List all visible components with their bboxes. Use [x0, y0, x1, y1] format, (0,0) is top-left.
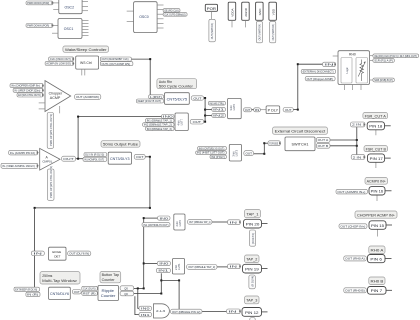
pill acmp0l in-: [1, 163, 38, 168]
label Auto Rtn 500 Cycle Counter: [157, 79, 197, 89]
pill WS out0: [100, 57, 131, 61]
pill OSC0 out OE: [163, 9, 180, 13]
wire LUT7 out stub: [204, 121, 206, 123]
pill 2LUT1 in0: [157, 261, 170, 265]
junction CNT3 net lower right corner: [149, 207, 151, 209]
svg-text:Logic: Logic: [345, 67, 349, 74]
TAP1-CHAIN: [142, 210, 262, 247]
wire ACMP0L net vertical up: [77, 117, 79, 159]
wire PIN 15 bottom stub: [377, 229, 379, 236]
pill 3LUT0 in2: [212, 114, 226, 118]
junction Q0 corner: [160, 293, 162, 295]
junction debounce branch: [160, 279, 162, 281]
svg-text:CNT5/DLY5: CNT5/DLY5: [167, 98, 188, 102]
svg-text:POR: POR: [207, 7, 217, 11]
wire Q5 net vertical up to LUT0/LUT1: [143, 218, 145, 288]
pin stub below AGND: [244, 20, 246, 27]
pill 3LUT0 out: [244, 108, 252, 112]
svg-text:1 (RST): 1 (RST): [150, 95, 162, 99]
wire PIN 18 out right: [385, 125, 391, 127]
pill LUT7 in1: [146, 119, 175, 123]
svg-text:P DLY: P DLY: [268, 108, 279, 112]
svg-text:OUT (RH0 B): OUT (RH0 B): [345, 289, 365, 293]
wire CNT3 net vertical down left side to EDGE DET and CNT6: [34, 208, 36, 289]
pill LUT7 out: [190, 119, 203, 124]
pill OSC1 power-down input: [26, 24, 53, 28]
svg-text:(R DLY4): (R DLY4): [251, 233, 255, 244]
counter CNT6/DLY6: [49, 287, 71, 299]
lut 2-bit LUT1: [172, 259, 184, 275]
svg-text:IN2 (DBNdLE TAP_2): IN2 (DBNdLE TAP_2): [144, 123, 172, 127]
wire 2-bit LUT0 out to PIN20 in: [212, 221, 228, 223]
label 50ms Output Pulse: [101, 141, 140, 148]
pill GND matrix (rotated): [256, 21, 262, 42]
wire PIN 20 out right: [262, 223, 268, 225]
svg-text:CLK (DLY6): CLK (DLY6): [83, 287, 96, 291]
op-amp ACMP0L: [40, 148, 60, 170]
pill 2LUT1 in1: [156, 268, 170, 272]
RIPPLE-CLUSTER: [98, 271, 134, 300]
wire lut0 out to pdly in: [252, 109, 254, 111]
wire CNT3 out stub: [145, 156, 150, 158]
TAP3-CHAIN: [139, 296, 262, 320]
WIRES-LAYER: [34, 58, 392, 315]
svg-text:LUT3: LUT3: [234, 149, 238, 156]
svg-text:2-L3: 2-L3: [156, 309, 166, 313]
svg-text:OUT0 (MASTERBIT CLK): OUT0 (MASTERBIT CLK): [102, 57, 129, 61]
pill SWITCH1 out A: [316, 138, 330, 143]
wire PIN 17 bottom stub: [375, 162, 377, 168]
pill PIN12 dly (rotated, clipped): [250, 318, 255, 320]
junction debounce corner: [178, 279, 180, 281]
delay P DLY: [266, 106, 280, 114]
svg-text:Ripple: Ripple: [102, 289, 115, 293]
pill 2LUT0 in0: [158, 216, 171, 220]
svg-text:RH0 A: RH0 A: [371, 249, 385, 253]
svg-text:IN0: IN0: [141, 307, 150, 311]
pill 3LUT0 in1: [212, 108, 226, 112]
svg-text:OUT: OUT: [246, 152, 253, 156]
svg-text:S1B (R1B) B (P): S1B (R1B) B (P): [374, 78, 393, 82]
pin stub OSC2 left: [53, 9, 59, 11]
pill PIN12 in: [227, 309, 241, 314]
svg-text:CNT6/DLY6: CNT6/DLY6: [50, 292, 69, 296]
ACMP0L-CLUSTER: [1, 148, 76, 200]
pill PIN7 matrix: [344, 288, 367, 293]
wire Q5 branch down to 2-L3 IN1: [138, 288, 139, 308]
wire pdly pill to box: [260, 109, 266, 111]
wire SWITCH1 OUT A to right: [330, 139, 357, 141]
wire P DLY net horizontal into RHD IN: [298, 63, 323, 65]
svg-text:LUT0: LUT0: [232, 103, 236, 110]
pill PDLY in: [254, 108, 261, 112]
pill CNT6 in: [26, 292, 40, 296]
EDGE-DET-CLUSTER: [31, 247, 90, 260]
wire CNT5/LUT7 shared vertical: [204, 98, 206, 122]
svg-text:IN (R): IN (R): [27, 293, 38, 297]
svg-text:OSC0: OSC0: [139, 15, 149, 19]
svg-text:OUT: OUT: [193, 96, 201, 100]
svg-text:PIN 16: PIN 16: [371, 190, 384, 194]
svg-text:FSR_CUT A: FSR_CUT A: [365, 114, 387, 118]
svg-text:OUT A: OUT A: [318, 138, 329, 142]
label ACMP0 IN+: [365, 178, 388, 185]
lut 4-bit LUT7: [175, 113, 188, 131]
LUT3-CLUSTER: [196, 144, 254, 161]
pill WS in RST: [45, 61, 74, 65]
svg-text:IN: IN: [255, 108, 260, 112]
svg-text:500 Cycle Counter: 500 Cycle Counter: [159, 85, 194, 89]
svg-text:OUT (DBNdLE TAP_1): OUT (DBNdLE TAP_1): [189, 220, 211, 224]
wire ACMP0L net horizontal to LUT7 IN0: [78, 116, 161, 118]
pill WS in CLK: [49, 57, 74, 61]
pill WS out1: [100, 62, 133, 66]
PIN17-CLUSTER: [351, 146, 387, 163]
pill ripple clk: [82, 286, 98, 290]
svg-text:IN1 (DBNdLE TAP_1): IN1 (DBNdLE TAP_1): [147, 119, 172, 123]
lut 3-bit LUT3: [229, 144, 241, 161]
svg-text:IN0: IN0: [163, 115, 174, 119]
svg-text:IN1 (CNT6/DLY6 OUT): IN1 (CNT6/DLY6 OUT): [143, 223, 168, 227]
wire debounce horizontal: [161, 279, 179, 281]
pin VDD: [269, 2, 277, 20]
svg-text:RH0 B: RH0 B: [371, 280, 385, 284]
svg-text:OUT (CHOP IN+): OUT (CHOP IN+): [340, 224, 365, 228]
pin stub below chopper: [59, 106, 61, 113]
junction LUT0 in1 branch: [204, 109, 206, 111]
pill edge det out: [68, 251, 91, 256]
pill CNT5 out: [191, 96, 203, 100]
pin stubs OSC1 right: [82, 20, 89, 22]
pill chopper out: [75, 94, 101, 99]
wire Q0 net vertical up to LUT1 IN1: [160, 273, 162, 293]
wire branch to 3-bit LUT0 IN1: [205, 109, 212, 111]
pill chopper en: [17, 93, 43, 97]
pill PIN17 in: [351, 155, 365, 160]
pin stubs OSC2 right: [82, 1, 88, 3]
svg-text:OUT: OUT: [63, 157, 74, 161]
PIN15-CLUSTER: [339, 211, 397, 229]
svg-text:IN1: IN1: [141, 313, 150, 317]
wire ripple Q5 horizontal: [134, 287, 144, 289]
pill 3LUT3 in2: [210, 155, 226, 159]
pill 3LUT0 in0: [208, 101, 225, 105]
svg-text:IN+ (ACMP0 PIN 16): IN+ (ACMP0 PIN 16): [10, 151, 35, 155]
wire PIN 17 out right: [385, 157, 391, 159]
pill RHD out OE: [373, 54, 419, 58]
pill LUT7 in2: [143, 123, 174, 127]
pill 2L3 in1: [139, 312, 152, 316]
OSC-CLUSTER: [26, 0, 187, 39]
wire CNT3 net long horizontal: [35, 207, 150, 209]
svg-text:ACMP0 IN+: ACMP0 IN+: [367, 180, 386, 184]
pill RHD in: [323, 62, 336, 66]
svg-text:Wake/Sleep Controller: Wake/Sleep Controller: [65, 47, 107, 52]
label FSR_CUT B: [364, 146, 388, 152]
svg-text:(EXTERNAL DISCONNECT): (EXTERNAL DISCONNECT): [303, 70, 334, 74]
svg-text:CLK OUT0 (DBNdLE): CLK OUT0 (DBNdLE): [164, 13, 186, 17]
junction tap net top corner: [143, 217, 145, 219]
wire PIN 12 out right: [262, 311, 268, 313]
label TAP_1: [245, 210, 261, 218]
wire P DLY net vertical up to RHD: [297, 64, 299, 109]
svg-text:Counter: Counter: [102, 278, 116, 282]
svg-text:OUT: OUT: [74, 290, 80, 294]
svg-text:LUT7: LUT7: [179, 118, 183, 125]
LUT0-PDLY-CLUSTER: [208, 98, 293, 118]
svg-text:IN0 (WS CTRL): IN0 (WS CTRL): [210, 101, 225, 105]
pill chopper power (rotated): [47, 113, 53, 149]
pill PIN19 in: [228, 264, 241, 269]
svg-text:OSC2: OSC2: [65, 5, 75, 9]
junction P DLY corner: [297, 109, 299, 111]
wire WSctrl out to CNT5 clk: horizontal: [131, 58, 150, 60]
junction Q5 corner: [143, 287, 145, 289]
pill ripple Q5: [120, 286, 134, 291]
svg-text:PWR DOWN (POR): PWR DOWN (POR): [27, 24, 49, 28]
osc OSC0: [134, 2, 158, 33]
pill POR matrix out (rotated): [209, 19, 215, 42]
pill CNT6 out: [72, 290, 81, 294]
junction CNT5 out: [204, 97, 206, 99]
pin PIN 15: [369, 221, 386, 230]
svg-text:RST (R): RST (R): [83, 291, 96, 295]
svg-text:OUT (ACMP0 IN+): OUT (ACMP0 IN+): [337, 190, 365, 194]
svg-text:2 IN: 2 IN: [352, 123, 361, 127]
svg-text:OUT1 (OUT ACMP WS): OUT1 (OUT ACMP WS): [102, 62, 131, 66]
pill CNT5 keep: [136, 99, 163, 103]
pill PDLY out: [283, 108, 293, 112]
wire PIN 16 bottom stub: [376, 195, 378, 201]
wire P DLY out to corner: [293, 109, 298, 111]
svg-text:ACMP (IN LOW SIG): ACMP (IN LOW SIG): [46, 62, 71, 66]
svg-text:Multi-Tap Window: Multi-Tap Window: [42, 279, 77, 283]
wire CNT3 net vertical down: [149, 157, 151, 208]
PIN16-CLUSTER: [336, 178, 388, 196]
pin stub below POR: [210, 11, 212, 19]
edge detector EDGE DET: [49, 247, 66, 260]
svg-text:IN: IN: [325, 63, 334, 67]
junction LUT1 in0 branch: [143, 262, 145, 264]
svg-text:PIN 6: PIN 6: [370, 257, 382, 261]
pill SWITCH1 out B: [316, 143, 330, 148]
wire RHD right pin3: [370, 79, 373, 81]
wire pill to OSC2 pin: [53, 2, 59, 4]
svg-text:OUT B: OUT B: [318, 144, 329, 148]
wire RHD right pin1: [370, 55, 373, 57]
svg-text:EDGE: EDGE: [52, 250, 61, 254]
svg-text:VDDA: VDDA: [231, 8, 235, 16]
pill 2L3 in0: [139, 306, 152, 310]
osc OSC1: [58, 19, 82, 39]
pill CNT5 clk: [149, 95, 164, 99]
pin stubs RHD bottom: [344, 85, 346, 91]
svg-text:CLK (OSC0 OUT): CLK (OSC0 OUT): [50, 57, 71, 61]
svg-text:EN (WS CTRL OUT0): EN (WS CTRL OUT0): [18, 93, 41, 97]
svg-text:CMP0L: CMP0L: [42, 160, 53, 164]
svg-text:PWR DOWN (POR): PWR DOWN (POR): [27, 1, 49, 5]
pin PIN 6: [368, 255, 386, 263]
pill edge det in: [31, 251, 44, 255]
svg-text:IN3 (DBNdLE TAP_3): IN3 (DBNdLE TAP_3): [147, 127, 172, 131]
CNT5-AUTORTN-CLUSTER: [136, 79, 203, 105]
pill 3LUT3 in0: [198, 147, 227, 151]
label RH0 B: [369, 277, 385, 285]
pin PIN 17: [368, 154, 385, 162]
por POR: [205, 4, 217, 11]
pill CNT3 in: [83, 157, 107, 161]
pill PIN20 in: [228, 220, 241, 225]
pill SWITCH1 in: [268, 141, 281, 146]
svg-text:VDD: VDD: [271, 8, 275, 15]
pin stubs below WS Ctrl: [81, 69, 83, 75]
pill OSC2 power-down input: [26, 1, 53, 5]
CHOPPER-ACMP-CLUSTER: [10, 81, 101, 149]
svg-text:OUT (MATRIX): OUT (MATRIX): [259, 24, 262, 41]
pill OSC0 out CLK: [163, 13, 187, 17]
block RH0: [338, 51, 370, 85]
svg-text:OUT (RH0 A): OUT (RH0 A): [345, 257, 365, 261]
svg-text:DET: DET: [54, 254, 60, 258]
resistor symbol: [360, 60, 364, 82]
junction OUT B: [356, 145, 358, 147]
label TAP_3: [245, 296, 260, 304]
svg-text:IN- (VREF ACMP0L 160mV): IN- (VREF ACMP0L 160mV): [2, 164, 35, 168]
counter CNT3/DLY3: [108, 152, 131, 164]
pill 3LUT3 in1: [196, 151, 227, 155]
svg-text:Counter: Counter: [101, 294, 116, 298]
pill RHD S1R: [373, 59, 394, 63]
wire ripple Q0 horizontal: [134, 293, 162, 295]
pill 3LUT3 out: [244, 151, 254, 156]
PIN18-CLUSTER: [351, 113, 388, 130]
svg-text:Auto Rtn: Auto Rtn: [159, 80, 172, 84]
svg-text:PIN 17: PIN 17: [370, 157, 383, 161]
wire PIN 18 bottom stub: [375, 130, 377, 135]
pill acmp0l out: [62, 156, 76, 161]
pill chopper in+: [10, 84, 43, 88]
wire ACMP0L out horizontal to CNT3 inputs: [76, 158, 84, 160]
svg-text:IN+ (CHOPPER ACMP IN+): IN+ (CHOPPER ACMP IN+): [11, 84, 40, 88]
svg-text:CNT3/DLY3: CNT3/DLY3: [110, 157, 130, 161]
pin stubs chopper lower: [39, 102, 46, 104]
PIN6-CLUSTER: [344, 246, 385, 263]
pill 2LUT0 out: [188, 220, 213, 225]
pill acmp0l power (rotated): [48, 169, 55, 200]
svg-text:SWITCH1: SWITCH1: [292, 143, 309, 147]
svg-text:50ms Output Pulse: 50ms Output Pulse: [103, 142, 138, 147]
pin stubs OSC0 right: [157, 4, 163, 6]
pill PIN6 matrix: [344, 256, 367, 261]
svg-text:OE (RO CLK): OE (RO CLK): [164, 9, 179, 13]
svg-text:IN: IN: [229, 310, 237, 314]
junction Q5 branch: [137, 287, 139, 289]
pill 2L3 out: [171, 309, 203, 314]
osc OSC2: [59, 0, 82, 14]
svg-text:OUT: OUT: [193, 120, 202, 124]
pill LUT7 in0: [162, 115, 175, 119]
pin stubs OSC0 left: [127, 10, 134, 12]
block WS Ctrl: [76, 56, 99, 69]
wire PIN 15 out right: [386, 224, 392, 226]
pill PIN19 dly (rotated): [249, 275, 255, 289]
junction ACMP0L upper corner: [77, 116, 79, 118]
svg-text:IN1 (4-BIT LUT7 OUT): IN1 (4-BIT LUT7 OUT): [197, 151, 225, 155]
svg-text:RH0: RH0: [349, 52, 356, 56]
junction LUT3 out corner: [263, 153, 265, 155]
wire PIN 19 out right: [262, 268, 268, 270]
inner logic box: [341, 58, 352, 84]
junction OUT A: [356, 139, 358, 141]
svg-text:OSC1: OSC1: [64, 27, 74, 31]
junction LUT7 out corner: [204, 121, 206, 123]
pill acmp0l in+: [9, 150, 38, 155]
op-amp Chopper ACMP: [45, 81, 71, 112]
pill PIN20 dly (rotated): [249, 230, 255, 246]
junction ACMP0L out: [77, 158, 79, 160]
wire CNT5 out stub: [204, 97, 206, 99]
pill VDD matrix (rotated): [270, 21, 276, 42]
svg-text:AGND: AGND: [244, 7, 248, 17]
pill RHD external disconnect: [301, 69, 336, 73]
label External Circuit Disconnect: [273, 127, 328, 134]
pill PIN18 in: [351, 122, 365, 127]
wire branch to 3-bit LUT0 IN2: [205, 115, 212, 117]
junction WSctrl net: [149, 58, 151, 60]
label CHOPPER ACMP IN+: [355, 211, 397, 218]
svg-text:OE (RO) CLK (P DLY) / DLY (MF4: OE (RO) CLK (P DLY) / DLY (MF4 OUT): [374, 54, 417, 58]
svg-text:IN- (VREF CHOP 320m): IN- (VREF CHOP 320m): [14, 88, 40, 92]
pin PIN 7: [368, 287, 387, 295]
svg-text:PIN 15: PIN 15: [371, 224, 384, 228]
pin PIN 16: [369, 187, 385, 195]
junction CNT3 net left corner: [34, 207, 36, 209]
pill 2LUT0 in1: [142, 223, 170, 227]
pin GND: [256, 2, 264, 20]
svg-text:IN1: IN1: [213, 108, 225, 112]
wire 2-bit LUT1 out to PIN19 in: [217, 266, 228, 268]
svg-text:IN: IN: [229, 220, 237, 224]
svg-text:FSR_CUT B: FSR_CUT B: [366, 147, 387, 151]
label TAP_2: [245, 255, 260, 263]
svg-text:TAP_3: TAP_3: [246, 299, 257, 303]
counter Ripple Counter: [98, 286, 119, 301]
svg-text:GND: GND: [258, 8, 262, 16]
pill CNT6 keep: [14, 287, 40, 291]
svg-text:PWR UP (WS CTRL OUT1): PWR UP (WS CTRL OUT1): [49, 166, 53, 198]
pill CNT3 out: [134, 154, 145, 159]
svg-text:TOPSIDE: TOPSIDE: [269, 141, 278, 145]
label RH0 A: [369, 246, 385, 254]
inner resistor box: [356, 58, 368, 84]
svg-text:PWR UP (WS CTRL OUT1): PWR UP (WS CTRL OUT1): [49, 114, 53, 146]
svg-text:Button Tap: Button Tap: [102, 273, 120, 277]
svg-text:OUT: OUT: [285, 108, 292, 112]
svg-text:Q5: Q5: [124, 286, 128, 290]
svg-text:EXT/KEEP (R DLY6): EXT/KEEP (R DLY6): [15, 287, 37, 291]
label FSR_CUT A: [363, 113, 388, 119]
svg-text:PIN 12: PIN 12: [245, 311, 259, 315]
pill RHD chopper out: [305, 76, 335, 80]
junction CNT3 out corner: [149, 156, 151, 158]
LUT7-CLUSTER: [143, 113, 204, 131]
pill ripple rst: [82, 291, 98, 295]
svg-text:OUT (DBNdLE TAP_2): OUT (DBNdLE TAP_2): [188, 265, 215, 269]
wire PIN 7 out right: [386, 289, 392, 291]
pill RHD S1B: [373, 78, 394, 82]
POR-CLUSTER: [205, 2, 276, 43]
svg-text:OUT (MATRIX): OUT (MATRIX): [272, 24, 275, 41]
